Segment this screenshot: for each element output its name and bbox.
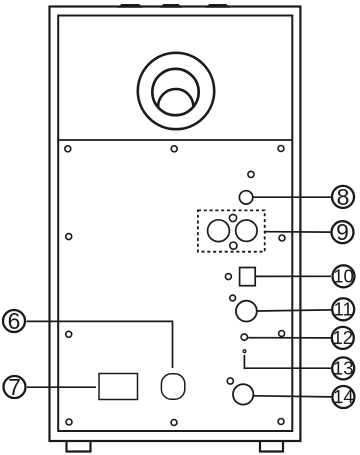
svg-text:9: 9 <box>336 219 349 245</box>
svg-text:7: 7 <box>8 374 21 400</box>
panel divider line <box>58 139 292 141</box>
right foot <box>260 441 283 452</box>
leader 12 <box>248 337 331 339</box>
connector 13 dot <box>243 350 246 353</box>
connector 11 small pilot circle <box>230 295 236 301</box>
connector 14 circle <box>233 384 253 404</box>
screw bottom-center <box>171 420 177 426</box>
top tab 1 <box>117 4 144 8</box>
callout 12 circle <box>332 327 354 349</box>
screw lower-right <box>279 331 285 337</box>
top tab 3 <box>205 4 230 8</box>
leader 7 <box>27 386 96 388</box>
top tab 2 <box>159 4 182 8</box>
callout 14 circle <box>332 386 354 408</box>
connector 12 circle <box>241 334 247 340</box>
svg-text:11: 11 <box>334 299 353 320</box>
cabinet outer box <box>50 7 301 442</box>
callout 10 circle <box>333 265 355 287</box>
leader 13 <box>244 355 331 368</box>
svg-text:12: 12 <box>333 327 354 348</box>
connector 9 left circle <box>208 220 230 242</box>
svg-text:10: 10 <box>333 266 354 287</box>
connector 9 top small circle <box>229 214 236 221</box>
rear panel inner rect <box>58 16 292 432</box>
connector 9 dashed outline <box>198 210 265 251</box>
leader 11 <box>258 310 332 311</box>
fan outer circle <box>138 53 214 129</box>
callout 7 circle <box>4 376 26 398</box>
leader 14 <box>254 396 332 397</box>
left foot <box>67 441 91 452</box>
connector 11 circle <box>236 301 257 322</box>
callout 13 circle <box>332 357 354 379</box>
connector 9 right circle <box>236 220 257 241</box>
callout 9 circle <box>332 221 354 243</box>
connector 6 barrel shape <box>161 374 184 400</box>
screw bottom-right <box>278 419 284 425</box>
svg-text:8: 8 <box>337 184 350 210</box>
connector 8 circle <box>239 191 252 204</box>
screw top-center <box>171 146 177 152</box>
svg-text:6: 6 <box>8 308 21 334</box>
screw top-right <box>278 146 284 152</box>
leader 8 <box>254 196 332 198</box>
fan middle circle <box>152 69 198 115</box>
connector 7 rect <box>99 374 138 400</box>
connector 9 bottom small circle <box>230 242 237 249</box>
leader 6 <box>27 321 173 368</box>
connector 14 small pilot circle <box>227 378 233 384</box>
callout 8 circle <box>332 186 354 208</box>
svg-text:14: 14 <box>333 386 354 407</box>
screw top-left <box>65 146 71 152</box>
leader 9 <box>266 231 332 233</box>
screw mid-left <box>66 234 72 240</box>
callout 11 circle <box>332 298 354 320</box>
screw mid-right <box>279 235 285 241</box>
connector 8 small pilot circle <box>248 171 254 177</box>
connector 10 small pilot circle <box>225 274 231 280</box>
fan hub arc <box>158 89 193 107</box>
screw lower-left <box>66 331 72 337</box>
screw bottom-left <box>66 419 72 425</box>
connector 10 square <box>240 268 256 286</box>
callout 6 circle <box>3 310 25 332</box>
svg-text:13: 13 <box>333 358 354 379</box>
leader 10 <box>256 275 331 277</box>
